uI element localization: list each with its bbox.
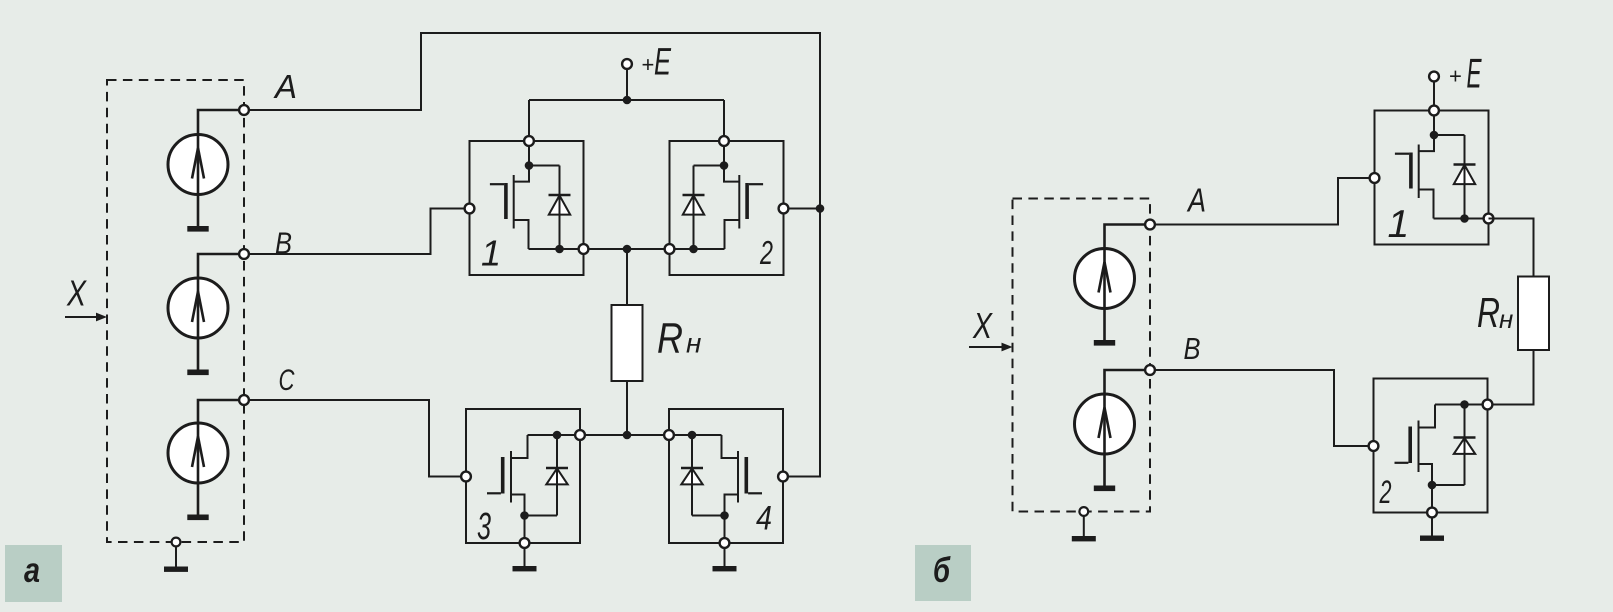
wire: +E supply rail (529, 99, 724, 101)
current source G2 (circuit a): circle (168, 278, 228, 338)
freewheel diode of module 2 (circuit a) (683, 166, 705, 250)
freewheel diode of module 2 (circuit b) (1454, 405, 1476, 486)
freewheel diode of module 4 (circuit a) (681, 435, 703, 516)
freewheel diode of module 1 (circuit a) (549, 166, 571, 250)
module 1 (circuit b) internal source wire (1434, 218, 1489, 220)
transistor module 2 (circuit b): body box (1374, 379, 1488, 513)
terminal bar of G2 (187, 370, 208, 376)
wire: upper bridge midpoint between modules 1 and 2 (584, 248, 670, 250)
wire: net B from G2 to gate of module 1 (244, 209, 470, 255)
MOSFET of module 2 (circuit a) (724, 166, 763, 250)
svg-text:2: 2 (759, 234, 773, 271)
transistor module 4 (circuit a): body box (669, 409, 783, 543)
junction at drain node of module 4 (circuit a) (688, 431, 697, 440)
MOSFET of module 4 (circuit a) (722, 435, 763, 516)
resistor R_H (circuit b) (1518, 277, 1549, 351)
current source G2 (circuit a): arrow head (192, 292, 204, 323)
module 1 (circuit a) internal drain wiring (529, 141, 560, 166)
svg-text:C: C (279, 364, 295, 397)
wire: shaft of G1 (circuit b) (1105, 225, 1151, 341)
node A terminal circle (circuit b) (1145, 220, 1155, 230)
current source G2 (circuit b): circle (1075, 394, 1135, 454)
node C terminal circle (239, 395, 249, 405)
module 3 (circuit a) internal drain wire (528, 434, 581, 436)
source terminal pin of module 1 (circuit b) (1484, 214, 1494, 224)
drain terminal pin of module 2 (circuit a) (719, 136, 729, 146)
svg-text:б: б (933, 551, 951, 590)
svg-text:2: 2 (1379, 474, 1392, 510)
svg-text:н: н (686, 328, 701, 359)
drain terminal pin of module 1 (circuit b) (1429, 106, 1439, 116)
current source G3 (circuit a): arrow head (192, 437, 204, 468)
junction at drain node of module 2 (circuit a) (720, 161, 729, 170)
wire: net C from G3 to gate of module 3 (244, 400, 466, 477)
wire: shaft of G3 down to terminal bar (198, 400, 244, 515)
wire: shaft of G2 (circuit b) (1105, 370, 1151, 486)
module 4 (circuit a) internal source wiring (692, 516, 725, 544)
svg-text:+: + (642, 52, 655, 77)
junction at source node of module 2 (circuit a) (689, 245, 698, 254)
wire: +E lead to module 1 drain (circuit b) (1433, 81, 1435, 111)
node B terminal circle (circuit b) (1145, 365, 1155, 375)
gate terminal pin of module 4 (circuit a) (778, 472, 788, 482)
module 3 (circuit a) internal source wiring (525, 516, 558, 544)
transistor module 1 (circuit a): body box (470, 141, 584, 275)
wire: +E lead down to supply rail (626, 68, 628, 100)
junction at source node of module 2 (circuit b) (1428, 481, 1437, 490)
drain terminal pin of module 3 (circuit a) (575, 430, 585, 440)
drain terminal pin of module 2 (circuit b) (1483, 400, 1493, 410)
module 2 (circuit a) internal source wire (670, 248, 725, 250)
junction at drain node of module 1 (circuit a) (525, 161, 534, 170)
junction at source node of module 1 (circuit a) (555, 245, 564, 254)
svg-text:3: 3 (477, 506, 491, 548)
junction at drain node of module 3 (circuit a) (553, 431, 562, 440)
gate terminal pin of module 2 (circuit a) (779, 204, 789, 214)
junction: lower midpoint (623, 431, 632, 440)
wire: load resistor to module 2 drain (circuit b) (1488, 350, 1534, 405)
svg-text:4: 4 (756, 500, 772, 538)
current source G2 (circuit b): arrow head (1099, 408, 1111, 439)
current source G3 (circuit a): circle (168, 423, 228, 483)
svg-text:R: R (1477, 289, 1500, 336)
svg-text:B: B (1184, 331, 1201, 366)
current source G1 (circuit a): arrow head (192, 148, 204, 179)
wire: net A from G1 to gate of module 1 (circuit b) (1150, 178, 1375, 225)
input arrow X (circuit a) (65, 313, 107, 322)
wire: gate stub of module 2 (784, 208, 820, 210)
source terminal pin of module 2 (circuit a) (665, 244, 675, 254)
current source G1 (circuit a): circle (168, 135, 228, 195)
terminal bar of G1 (b) (1094, 340, 1115, 346)
svg-text:н: н (1499, 304, 1513, 334)
svg-text:R: R (657, 315, 683, 363)
junction at drain node of module 1 (circuit b) (1430, 131, 1439, 140)
label R_H (circuit a) (657, 315, 701, 363)
terminal bar of G1 (187, 226, 208, 232)
wire: net A from source G1 through node A to gates of modules 2 and 4 (244, 33, 820, 477)
module 4 (circuit a) internal drain wire (669, 434, 722, 436)
ground of source block (circuit a) (164, 538, 188, 572)
module 1 (circuit a) internal source wire (529, 248, 584, 250)
svg-text:X: X (66, 273, 87, 314)
wire: shaft of G1 from node A wire down to terminal bar (198, 110, 244, 226)
circuit a: source block dashed box (107, 80, 244, 542)
freewheel diode of module 1 (circuit b) (1454, 135, 1476, 219)
current source G1 (circuit b): circle (1075, 249, 1135, 309)
wire: shaft of G2 down to terminal bar (198, 254, 244, 370)
ground of module 2 (circuit b) source (1420, 517, 1444, 541)
junction at source node of module 3 (circuit a) (520, 511, 529, 520)
junction at source node of module 4 (circuit a) (720, 511, 729, 520)
transistor module 2 (circuit a): body box (670, 141, 784, 275)
freewheel diode of module 3 (circuit a) (546, 435, 568, 516)
source terminal pin of module 1 (circuit a) (579, 244, 589, 254)
wire: midpoint down to load resistor (626, 249, 628, 305)
source terminal pin of module 2 (circuit b) (1427, 508, 1437, 518)
current source G1 (circuit b): arrow head (1099, 262, 1111, 293)
drain terminal pin of module 4 (circuit a) (664, 430, 674, 440)
ground of source block (circuit b) (1072, 507, 1096, 541)
junction at source node of module 1 (circuit b) (1460, 214, 1469, 223)
wire: rail riser to module 1 drain (528, 100, 530, 141)
transistor module 1 (circuit b): body box (1375, 111, 1489, 245)
gate terminal pin of module 2 (circuit b) (1369, 441, 1379, 451)
resistor R_H (circuit a) (612, 305, 643, 381)
svg-text:B: B (275, 226, 292, 261)
terminal bar of G3 (187, 515, 208, 521)
MOSFET of module 3 (circuit a) (487, 435, 528, 516)
junction: upper midpoint (623, 245, 632, 254)
node A terminal circle (239, 105, 249, 115)
module 1 (circuit b) internal drain wiring (1434, 111, 1465, 136)
junction on +E rail (623, 96, 632, 105)
wire: rail riser to module 2 drain (723, 100, 725, 141)
wire: module 1 source to load resistor (circuit b) (1489, 219, 1534, 277)
input arrow X (circuit b) (969, 343, 1013, 352)
svg-text:A: A (273, 68, 297, 105)
gate terminal pin of module 3 (circuit a) (461, 472, 471, 482)
ground of module 4 (circuit a) source (713, 547, 737, 571)
power terminal +E (circuit a) (622, 59, 632, 69)
svg-text:1: 1 (1388, 203, 1410, 246)
label +E (circuit a) (642, 42, 672, 84)
source terminal pin of module 4 (circuit a) (720, 538, 730, 548)
module 2 (circuit a) internal drain wiring (694, 141, 725, 166)
svg-text:+: + (1449, 64, 1462, 89)
wire: net B from G2 to gate of module 2 (circuit b) (1150, 370, 1374, 446)
MOSFET of module 2 (circuit b) (1395, 405, 1436, 486)
power terminal +E (circuit b) (1429, 72, 1439, 82)
label R_H (circuit b) (1477, 289, 1513, 336)
node B terminal circle (239, 249, 249, 259)
module 2 (circuit b) internal drain wire (1435, 404, 1488, 406)
wire: lower bridge midpoint between modules 3 and 4 (580, 434, 669, 436)
wire: load resistor down to lower midpoint (626, 381, 628, 435)
svg-text:1: 1 (481, 233, 501, 274)
MOSFET of module 1 (circuit b) (1395, 135, 1434, 219)
svg-text:X: X (972, 305, 993, 346)
gate terminal pin of module 1 (circuit b) (1370, 173, 1380, 183)
drain terminal pin of module 1 (circuit a) (524, 136, 534, 146)
MOSFET of module 1 (circuit a) (490, 166, 529, 250)
terminal bar of G2 (b) (1094, 486, 1115, 492)
figure tag box a (5, 545, 62, 602)
ground of module 3 (circuit a) source (513, 547, 537, 571)
figure tag box b (915, 545, 971, 601)
svg-text:A: A (1186, 182, 1206, 219)
transistor module 3 (circuit a): body box (466, 409, 580, 543)
junction at drain node of module 2 (circuit b) (1460, 400, 1469, 409)
svg-text:E: E (654, 42, 671, 84)
circuit b: source block dashed box (1013, 199, 1151, 512)
gate terminal pin of module 1 (circuit a) (465, 204, 475, 214)
junction: net A tap to gate of module 2 (816, 204, 825, 213)
svg-text:E: E (1467, 49, 1483, 96)
module 2 (circuit b) internal source wiring (1432, 485, 1465, 513)
source terminal pin of module 3 (circuit a) (520, 538, 530, 548)
svg-text:а: а (24, 551, 40, 590)
label +E (circuit b) (1449, 49, 1482, 96)
